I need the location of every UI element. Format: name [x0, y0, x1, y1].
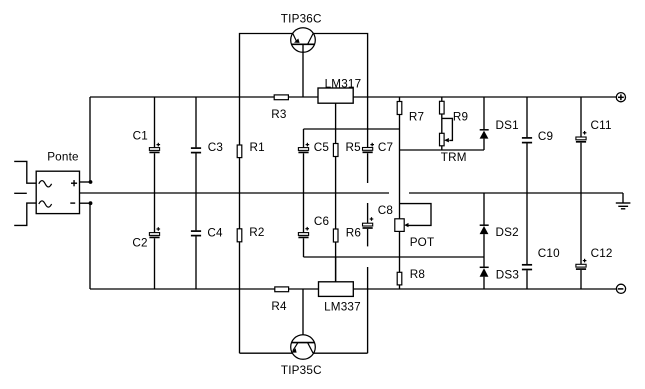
wire AC input upper stub [14, 161, 36, 183]
svg-text:C8: C8 [378, 204, 393, 217]
node minus junction dot [89, 201, 93, 205]
capacitor C3 [191, 97, 201, 230]
trimmer TRM [440, 118, 453, 150]
svg-text:C7: C7 [378, 141, 393, 154]
wire AC center tap stub [14, 192, 27, 194]
wire TIP36C base [302, 44, 304, 97]
svg-text:TIP35C: TIP35C [281, 364, 322, 377]
capacitor C5 [298, 129, 309, 233]
wire TIP35C collector run [313, 352, 368, 354]
node positive output terminal [616, 93, 625, 102]
capacitor C7 [363, 143, 375, 183]
svg-text:C2: C2 [132, 237, 147, 250]
resistor R4 [275, 287, 289, 292]
wire center ground rail [80, 193, 624, 203]
svg-text:R3: R3 [271, 108, 286, 121]
resistor R6 [333, 229, 338, 281]
wire emitter dropper TIP35C [240, 352, 293, 354]
svg-text:C11: C11 [591, 119, 612, 132]
capacitor C6 [298, 227, 309, 257]
resistor R3 [274, 95, 288, 100]
svg-text:C12: C12 [591, 247, 613, 260]
transistor Q1 TIP36C [291, 28, 316, 53]
wire R7 TRM DS1 link [400, 149, 485, 151]
svg-text:R4: R4 [271, 300, 287, 313]
svg-text:LM337: LM337 [324, 301, 361, 314]
svg-text:DS1: DS1 [496, 119, 519, 132]
svg-text:C5: C5 [314, 141, 330, 154]
svg-text:C9: C9 [538, 130, 553, 143]
wire plus riser [89, 97, 91, 182]
wire bridge plus output [80, 181, 91, 183]
op-amp regulator U2 LM337 [319, 282, 354, 297]
potentiometer POT [395, 204, 431, 273]
wire TIP35C collector riser [367, 267, 369, 353]
wire TIP35C base [302, 289, 304, 343]
resistor R8 [397, 272, 402, 289]
resistor R2 [237, 229, 242, 353]
wire top positive rail [90, 96, 616, 98]
capacitor C4 [191, 231, 201, 289]
svg-text:DS3: DS3 [496, 268, 519, 281]
svg-text:C6: C6 [314, 215, 329, 228]
ground [616, 203, 631, 209]
svg-text:C1: C1 [133, 130, 148, 143]
wire adjust branch line [304, 128, 400, 130]
svg-text:R7: R7 [409, 111, 424, 124]
svg-text:TRM: TRM [441, 151, 467, 164]
svg-text:Ponte: Ponte [47, 151, 79, 164]
svg-text:R5: R5 [346, 141, 362, 154]
resistor R5 [333, 144, 338, 230]
node plus junction dot [89, 180, 93, 184]
capacitor C1 [149, 97, 160, 233]
svg-text:DS2: DS2 [496, 226, 519, 239]
wire LM337 adjust pin [335, 257, 337, 282]
capacitor C11 [576, 97, 587, 264]
svg-text:C10: C10 [538, 247, 560, 260]
svg-text:R8: R8 [410, 268, 425, 281]
bridge rectifier Ponte [36, 171, 79, 213]
transistor Q2 TIP35C [291, 335, 316, 360]
svg-text:C3: C3 [208, 141, 223, 154]
svg-text:POT: POT [410, 236, 435, 249]
svg-text:R9: R9 [453, 111, 468, 124]
resistor R7 [397, 97, 402, 219]
resistor R1 [237, 97, 242, 229]
capacitor C8 [363, 203, 374, 246]
svg-text:TIP36C: TIP36C [281, 13, 322, 26]
node negative output terminal [616, 284, 625, 293]
op-amp regulator U1 LM317 [318, 88, 353, 103]
capacitor C9 [522, 97, 532, 264]
diode DS3 [480, 257, 489, 289]
wire minus dropper [89, 203, 91, 289]
svg-text:R2: R2 [249, 226, 264, 239]
diode DS2 [480, 193, 489, 257]
wire bridge minus output [80, 202, 91, 204]
svg-text:R6: R6 [346, 226, 361, 239]
capacitor C12 [576, 259, 587, 289]
diode DS1 [480, 97, 489, 150]
svg-text:R1: R1 [250, 141, 265, 154]
svg-text:LM317: LM317 [325, 77, 362, 90]
svg-text:C4: C4 [207, 226, 223, 239]
wire TIP36C collector to C7 chain [313, 34, 368, 148]
wire emitter riser TIP36C [240, 34, 293, 98]
wire LM337 adjust rail [304, 256, 485, 258]
wire AC input lower stub [14, 203, 36, 225]
resistor R9 [440, 97, 445, 133]
capacitor C10 [522, 265, 532, 289]
capacitor C2 [149, 227, 160, 289]
wire bottom negative rail [90, 288, 617, 290]
wire LM317 adjust [335, 103, 337, 143]
